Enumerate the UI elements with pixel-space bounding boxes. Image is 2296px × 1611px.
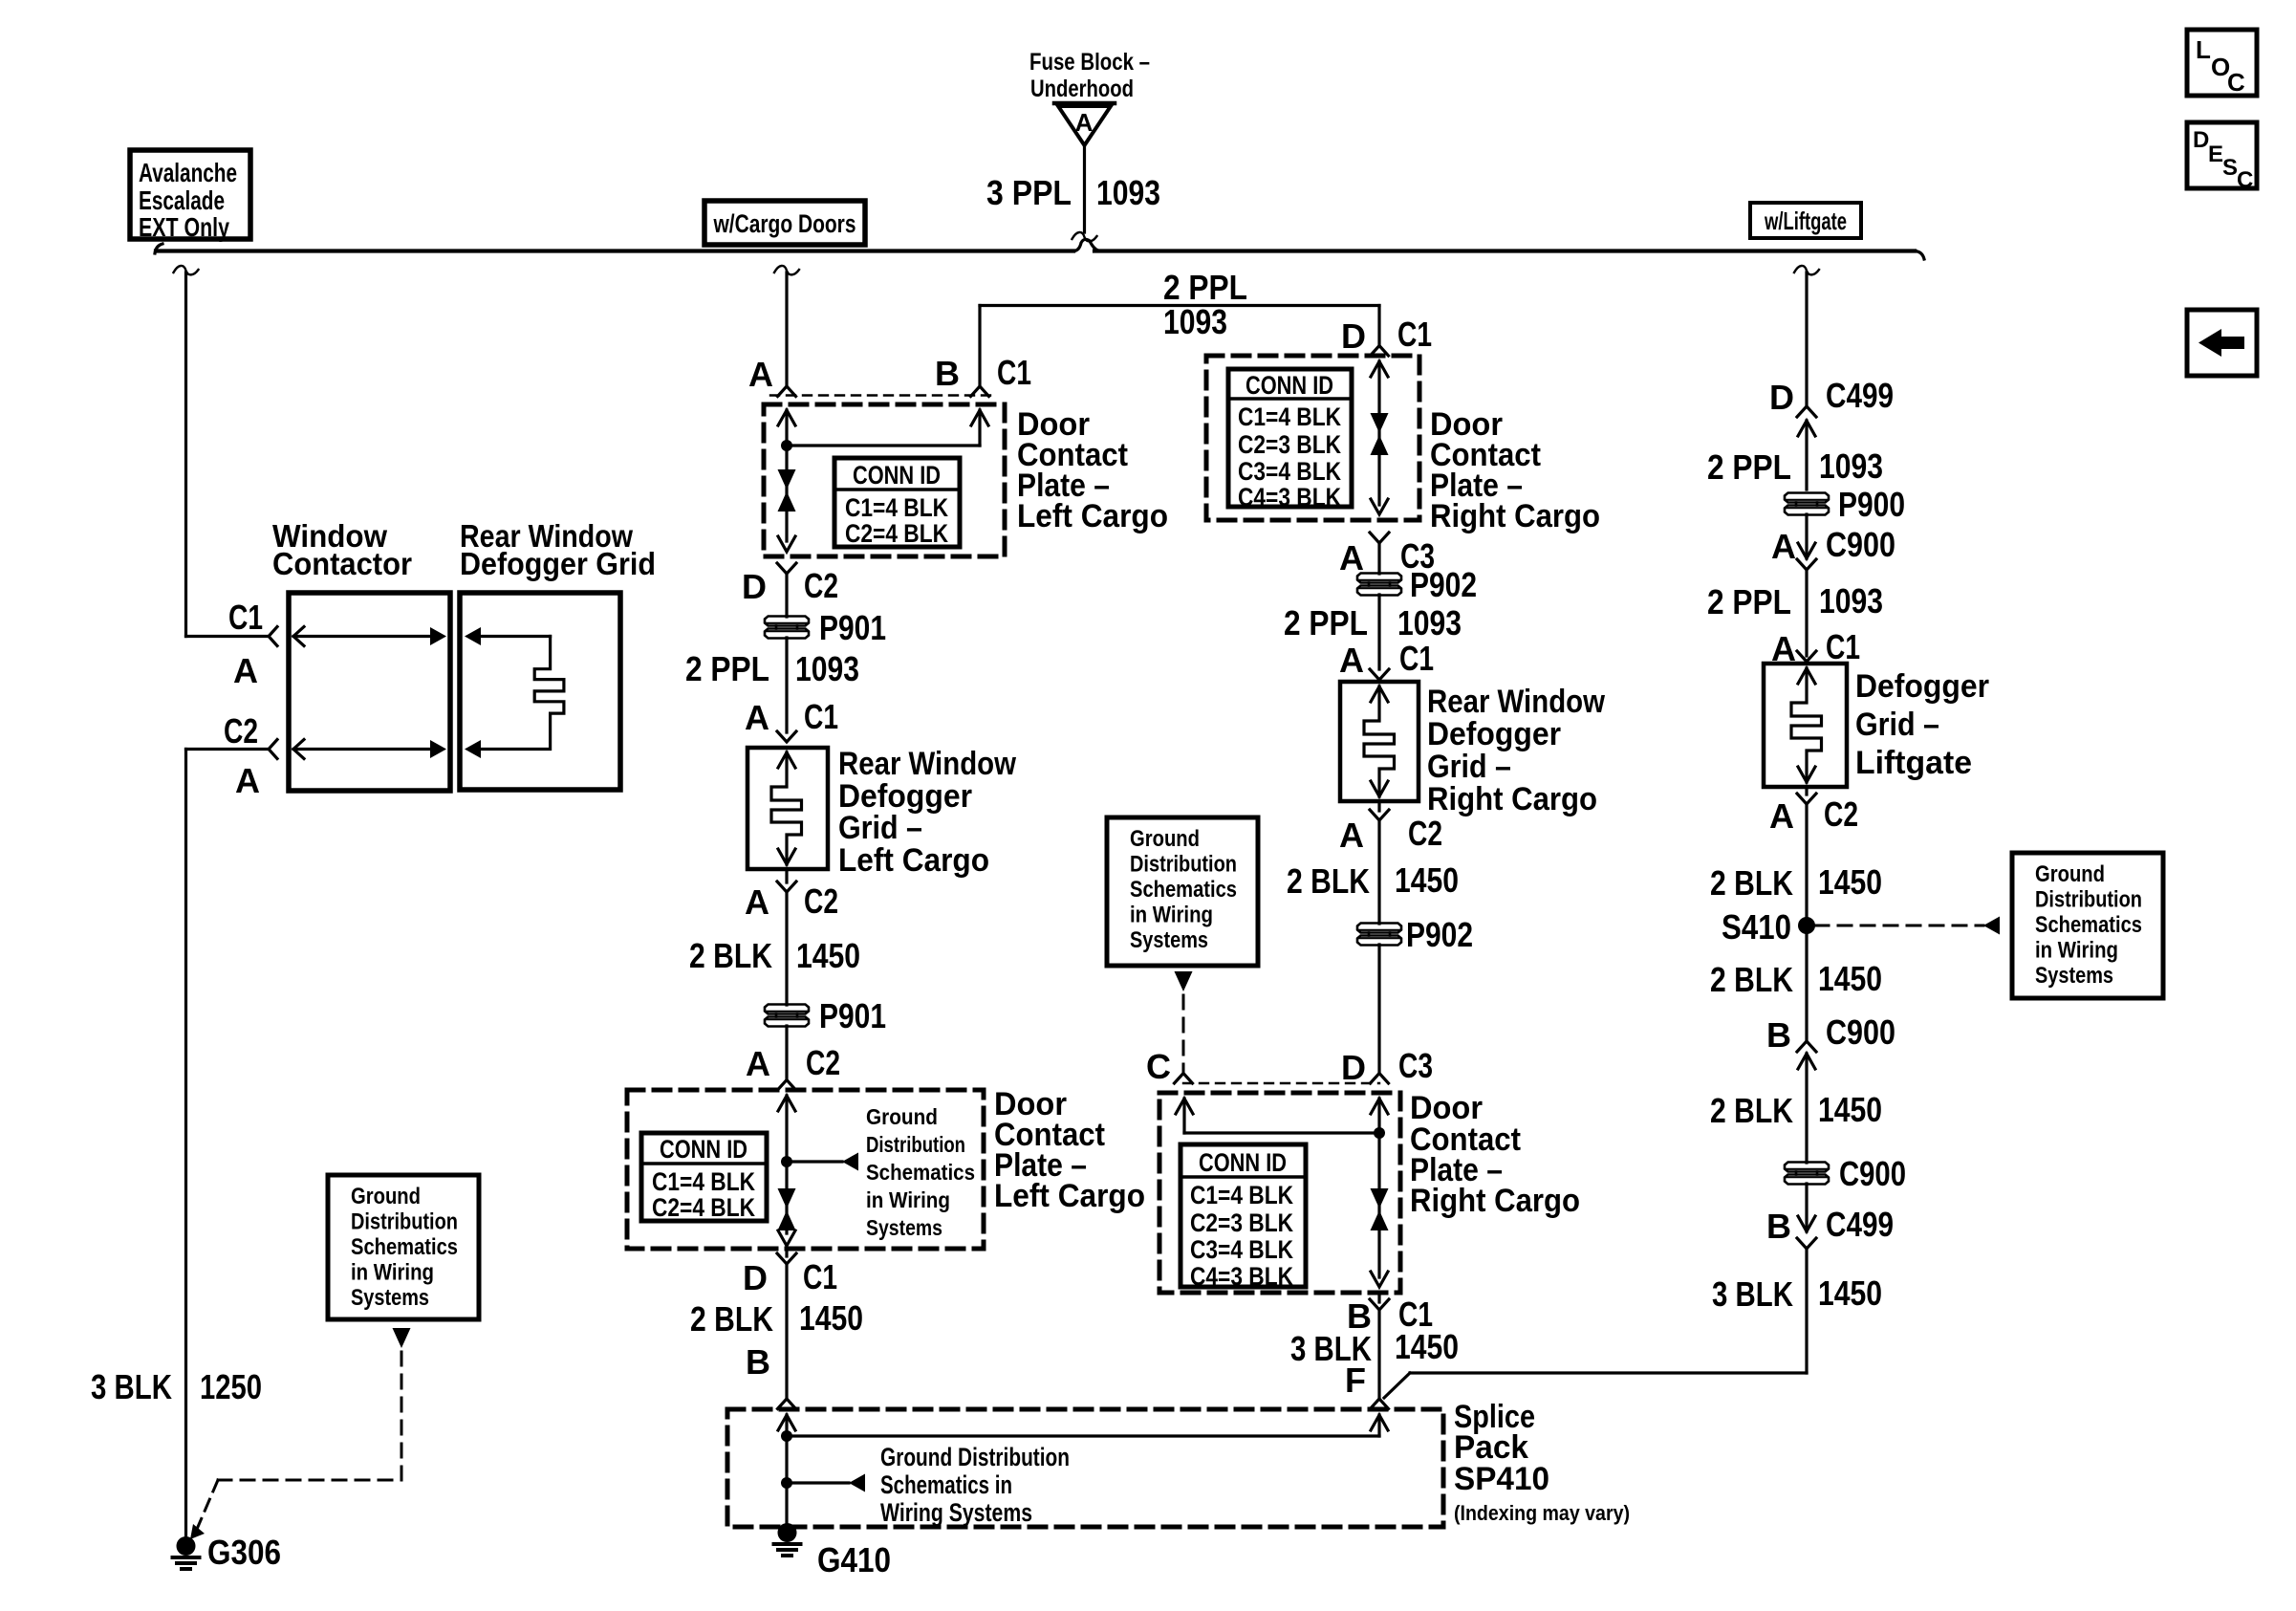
- svg-text:C900: C900: [1839, 1154, 1906, 1193]
- svg-text:Schematics: Schematics: [2035, 912, 2142, 938]
- svg-text:Ground: Ground: [1130, 826, 1200, 852]
- svg-text:Rear Window: Rear Window: [838, 746, 1016, 782]
- svg-text:C2=3 BLK: C2=3 BLK: [1190, 1208, 1293, 1237]
- svg-text:Distribution: Distribution: [866, 1132, 965, 1157]
- svg-text:CONN ID: CONN ID: [660, 1135, 747, 1164]
- dashed reference pointer to C: [1175, 971, 1193, 991]
- svg-text:B: B: [1766, 1207, 1791, 1246]
- svg-text:3 PPL: 3 PPL: [986, 173, 1072, 212]
- svg-text:Defogger: Defogger: [1855, 668, 1989, 705]
- defogger grid element (liftgate): [1791, 668, 1822, 782]
- ground distribution schematics box (right): [2012, 853, 2163, 998]
- DESC reference box: [2187, 122, 2257, 188]
- svg-text:A: A: [1771, 527, 1796, 566]
- svg-text:2 PPL: 2 PPL: [1284, 603, 1368, 642]
- dashed pin line (right plate bottom): [1183, 1082, 1379, 1084]
- svg-text:2 PPL: 2 PPL: [1707, 582, 1791, 621]
- svg-text:in Wiring: in Wiring: [1130, 903, 1213, 928]
- wire C900 to C499: [1805, 1184, 1808, 1231]
- splice pack bus: [778, 1415, 795, 1430]
- svg-text:2 BLK: 2 BLK: [1710, 863, 1793, 903]
- svg-text:S: S: [2222, 155, 2238, 181]
- grommet C900: [1785, 1163, 1829, 1172]
- svg-text:Grid –: Grid –: [1855, 707, 1939, 743]
- svg-text:w/Liftgate: w/Liftgate: [1764, 207, 1847, 235]
- svg-text:2 BLK: 2 BLK: [1710, 960, 1793, 999]
- svg-text:Schematics: Schematics: [866, 1160, 975, 1185]
- svg-text:Contactor: Contactor: [272, 546, 412, 581]
- svg-text:C499: C499: [1826, 376, 1894, 415]
- svg-text:CONN ID: CONN ID: [853, 461, 941, 490]
- LOC reference box: [2187, 30, 2257, 96]
- svg-text:SP410: SP410: [1454, 1461, 1549, 1497]
- svg-text:C1: C1: [997, 353, 1031, 392]
- svg-text:1093: 1093: [795, 649, 859, 688]
- svg-text:Wiring Systems: Wiring Systems: [880, 1498, 1032, 1527]
- svg-text:1450: 1450: [799, 1298, 863, 1338]
- ground distribution schematics box (middle): [1107, 817, 1258, 966]
- defogger grid - liftgate box: [1764, 664, 1847, 787]
- option box Avalanche Escalade EXT Only: [130, 150, 250, 239]
- svg-text:1450: 1450: [1818, 1090, 1882, 1129]
- rear window defogger grid - left cargo box: [747, 748, 828, 869]
- svg-text:(Indexing may vary): (Indexing may vary): [1454, 1501, 1630, 1525]
- svg-text:Left Cargo: Left Cargo: [994, 1178, 1145, 1214]
- svg-text:Right Cargo: Right Cargo: [1430, 498, 1600, 534]
- svg-text:2 PPL: 2 PPL: [1707, 447, 1791, 487]
- svg-text:Fuse Block –: Fuse Block –: [1029, 49, 1150, 76]
- svg-text:C1: C1: [228, 598, 263, 637]
- svg-text:C2: C2: [804, 882, 838, 921]
- svg-text:Ground: Ground: [351, 1184, 421, 1209]
- svg-text:C2: C2: [1824, 795, 1858, 834]
- ground distribution schematics box (bottom left): [328, 1175, 479, 1319]
- dashed reference line S410: [1815, 925, 1983, 927]
- svg-text:1093: 1093: [1819, 581, 1883, 620]
- svg-text:P902: P902: [1406, 915, 1473, 954]
- CONN ID table (right top): [1228, 369, 1352, 507]
- svg-text:1093: 1093: [1096, 173, 1160, 212]
- svg-text:1450: 1450: [1818, 959, 1882, 998]
- wire: fuse block to bus: [1083, 145, 1086, 232]
- svg-text:C1=4 BLK: C1=4 BLK: [1190, 1181, 1293, 1209]
- wire below P902: [1377, 945, 1380, 1074]
- svg-text:A: A: [746, 1044, 770, 1083]
- wire: lower left to ground: [184, 750, 187, 1538]
- svg-text:B: B: [746, 1342, 770, 1382]
- svg-text:C: C: [2237, 167, 2253, 193]
- svg-text:C2: C2: [806, 1043, 840, 1082]
- plate circuit (left top): [778, 410, 795, 425]
- svg-text:A: A: [745, 698, 769, 737]
- door contact plate left-top dashed box: [764, 404, 1005, 556]
- svg-text:1450: 1450: [796, 936, 860, 975]
- defogger grid element (right cargo): [1364, 686, 1395, 796]
- CONN ID table (left top): [834, 458, 960, 547]
- svg-text:Left Cargo: Left Cargo: [1017, 498, 1168, 534]
- svg-text:A: A: [235, 761, 260, 800]
- svg-text:Ground Distribution: Ground Distribution: [880, 1443, 1070, 1471]
- CONN ID table (left bottom): [641, 1133, 767, 1221]
- svg-text:Distribution: Distribution: [1130, 852, 1237, 878]
- svg-text:C2=3 BLK: C2=3 BLK: [1238, 430, 1341, 459]
- svg-text:1093: 1093: [1819, 446, 1883, 486]
- svg-text:C3: C3: [1398, 1046, 1433, 1085]
- svg-text:2 BLK: 2 BLK: [690, 1299, 773, 1339]
- svg-text:CONN ID: CONN ID: [1199, 1148, 1287, 1177]
- svg-text:C1: C1: [803, 1257, 837, 1296]
- CONN ID table (right bottom): [1180, 1144, 1306, 1287]
- fuse block connector triangle A: [1054, 101, 1115, 106]
- svg-text:1450: 1450: [1395, 1327, 1459, 1366]
- door contact plate right-top dashed box: [1206, 356, 1419, 520]
- connector B (splice pack): [778, 1399, 796, 1409]
- svg-text:Escalade: Escalade: [139, 185, 225, 215]
- svg-text:Right Cargo: Right Cargo: [1410, 1183, 1580, 1219]
- svg-text:C1: C1: [804, 697, 838, 736]
- svg-text:Liftgate: Liftgate: [1855, 745, 1972, 781]
- svg-text:C1=4 BLK: C1=4 BLK: [1238, 403, 1341, 431]
- svg-text:P901: P901: [819, 608, 886, 647]
- svg-text:1093: 1093: [1397, 603, 1462, 642]
- svg-text:1450: 1450: [1395, 860, 1459, 900]
- svg-text:1450: 1450: [1818, 862, 1882, 902]
- grommet P900: [1785, 493, 1829, 503]
- svg-text:1450: 1450: [1818, 1274, 1882, 1313]
- svg-text:C2: C2: [1408, 814, 1442, 853]
- svg-text:C4=3 BLK: C4=3 BLK: [1238, 483, 1341, 512]
- grommet P902 (lower): [1357, 924, 1401, 933]
- svg-text:Schematics in: Schematics in: [880, 1470, 1012, 1499]
- svg-text:Systems: Systems: [866, 1215, 942, 1240]
- wire below P901: [785, 1026, 788, 1080]
- wire: 2 PPL 1093 jumper to right plate: [978, 306, 981, 387]
- window contactor contact row C2: [293, 740, 304, 759]
- svg-text:2 BLK: 2 BLK: [689, 936, 772, 975]
- rear window defogger grid box: [460, 593, 620, 790]
- defogger grid element (left module): [465, 627, 481, 645]
- svg-text:D: D: [1341, 1048, 1366, 1087]
- svg-text:D: D: [742, 567, 767, 606]
- svg-text:2 PPL: 2 PPL: [1163, 268, 1247, 307]
- svg-text:2 BLK: 2 BLK: [1710, 1091, 1793, 1130]
- svg-text:Distribution: Distribution: [351, 1209, 458, 1235]
- svg-text:Ground: Ground: [2035, 861, 2105, 887]
- svg-text:D: D: [1341, 316, 1366, 356]
- svg-text:P901: P901: [819, 996, 886, 1035]
- svg-text:2 PPL: 2 PPL: [685, 649, 769, 688]
- rear window defogger grid - right cargo box: [1340, 682, 1419, 801]
- svg-text:C1: C1: [1826, 627, 1860, 666]
- svg-text:C1: C1: [1397, 315, 1432, 354]
- splice pack SP410 dashed box: [727, 1409, 1443, 1527]
- svg-text:P902: P902: [1410, 565, 1477, 604]
- svg-text:C2: C2: [804, 566, 838, 605]
- svg-text:Systems: Systems: [1130, 927, 1208, 953]
- wire: liftgate return to splice pack: [1410, 1371, 1807, 1374]
- option box w/Liftgate: [1750, 203, 1861, 238]
- wire: main option bus: [155, 244, 162, 253]
- svg-text:C3=4 BLK: C3=4 BLK: [1238, 457, 1341, 486]
- wire P900 to C900: [1805, 514, 1808, 558]
- svg-text:C900: C900: [1826, 525, 1895, 564]
- svg-text:in Wiring: in Wiring: [866, 1187, 950, 1212]
- svg-text:A: A: [1339, 641, 1364, 680]
- plate circuit (left bottom): [778, 1096, 795, 1111]
- plate circuit (right top): [1371, 361, 1388, 377]
- svg-text:Schematics: Schematics: [351, 1234, 458, 1260]
- dashed reference pointer to G306: [393, 1328, 411, 1348]
- svg-text:3 BLK: 3 BLK: [1712, 1274, 1793, 1314]
- svg-text:F: F: [1345, 1361, 1366, 1400]
- svg-text:Schematics: Schematics: [1130, 877, 1237, 903]
- svg-text:A: A: [233, 651, 258, 690]
- svg-text:w/Cargo Doors: w/Cargo Doors: [713, 209, 856, 238]
- grommet P901 (upper): [765, 617, 809, 626]
- svg-text:1250: 1250: [200, 1367, 262, 1406]
- svg-text:Right Cargo: Right Cargo: [1427, 781, 1597, 817]
- svg-text:P900: P900: [1838, 485, 1905, 524]
- svg-text:Underhood: Underhood: [1030, 76, 1134, 102]
- svg-text:A: A: [1769, 796, 1794, 836]
- wire: to window contactor C1: [186, 635, 270, 638]
- svg-text:G306: G306: [207, 1533, 281, 1572]
- svg-text:Systems: Systems: [351, 1285, 429, 1311]
- dashed pin line (left plate top): [770, 394, 994, 396]
- svg-text:Left Cargo: Left Cargo: [838, 842, 989, 879]
- svg-text:C1=4 BLK: C1=4 BLK: [652, 1167, 755, 1196]
- svg-text:C2: C2: [224, 711, 258, 751]
- plate circuit (right bottom): [1371, 1099, 1388, 1114]
- wire: 2 PPL 1093 (right): [1377, 595, 1380, 669]
- svg-text:D: D: [1769, 378, 1794, 417]
- wire: 2 PPL 1093 segment: [785, 638, 788, 732]
- svg-text:Avalanche: Avalanche: [139, 158, 237, 187]
- svg-text:B: B: [1766, 1015, 1791, 1055]
- svg-text:1093: 1093: [1163, 302, 1227, 341]
- svg-text:E: E: [2208, 142, 2223, 167]
- svg-text:C2=4 BLK: C2=4 BLK: [652, 1193, 755, 1222]
- wire: liftgate branch from bus: [1794, 266, 1819, 274]
- svg-text:Distribution: Distribution: [2035, 887, 2142, 913]
- svg-text:A: A: [1339, 816, 1364, 855]
- wire: left branch from bus: [174, 266, 199, 274]
- svg-text:C1=4 BLK: C1=4 BLK: [845, 493, 948, 522]
- ground G410: [778, 1523, 797, 1542]
- svg-text:Rear Window: Rear Window: [1427, 684, 1605, 720]
- svg-text:Ground: Ground: [866, 1104, 938, 1129]
- svg-text:Systems: Systems: [2035, 963, 2113, 989]
- svg-text:L: L: [2196, 35, 2211, 64]
- svg-text:C: C: [1146, 1047, 1171, 1086]
- back-arrow box: [2187, 310, 2257, 376]
- window contactor contact row C1: [293, 627, 304, 646]
- svg-text:C4=3 BLK: C4=3 BLK: [1190, 1262, 1293, 1291]
- svg-text:S410: S410: [1722, 907, 1791, 947]
- svg-text:A: A: [745, 882, 769, 922]
- svg-text:Grid –: Grid –: [838, 810, 922, 846]
- svg-text:C900: C900: [1826, 1012, 1895, 1052]
- svg-text:C: C: [2227, 68, 2245, 97]
- connector F (splice pack): [1371, 1399, 1389, 1409]
- svg-text:G410: G410: [817, 1540, 891, 1579]
- defogger grid element (left cargo): [771, 752, 802, 864]
- svg-text:in Wiring: in Wiring: [2035, 938, 2118, 964]
- svg-text:CONN ID: CONN ID: [1245, 371, 1333, 400]
- svg-text:D: D: [2193, 127, 2209, 153]
- grommet P901 (lower): [765, 1005, 809, 1014]
- svg-text:B: B: [935, 354, 960, 393]
- svg-text:2 BLK: 2 BLK: [1287, 861, 1370, 901]
- svg-text:C3=4 BLK: C3=4 BLK: [1190, 1235, 1293, 1264]
- svg-text:EXT Only: EXT Only: [139, 212, 229, 242]
- window contactor box: [289, 593, 450, 791]
- svg-text:Defogger Grid: Defogger Grid: [460, 546, 656, 581]
- door contact plate left-bottom dashed box: [627, 1090, 984, 1249]
- wire: cargo-door branch from bus: [774, 266, 799, 274]
- svg-text:in Wiring: in Wiring: [351, 1260, 434, 1286]
- grommet P902 (upper): [1357, 574, 1401, 583]
- svg-text:A: A: [1075, 108, 1094, 137]
- svg-text:C499: C499: [1826, 1205, 1894, 1244]
- ground G306: [177, 1536, 196, 1556]
- svg-text:C2=4 BLK: C2=4 BLK: [845, 519, 948, 548]
- option box w/Cargo Doors: [704, 201, 865, 245]
- svg-text:A: A: [748, 355, 773, 394]
- svg-text:D: D: [743, 1258, 768, 1297]
- svg-text:A: A: [1339, 538, 1364, 577]
- svg-text:Grid –: Grid –: [1427, 749, 1511, 785]
- svg-text:C1: C1: [1399, 639, 1434, 678]
- door contact plate right-bottom dashed box: [1159, 1093, 1400, 1293]
- svg-text:Defogger: Defogger: [1427, 716, 1561, 752]
- wire: to window contactor C2: [186, 748, 270, 751]
- svg-text:3 BLK: 3 BLK: [91, 1367, 172, 1406]
